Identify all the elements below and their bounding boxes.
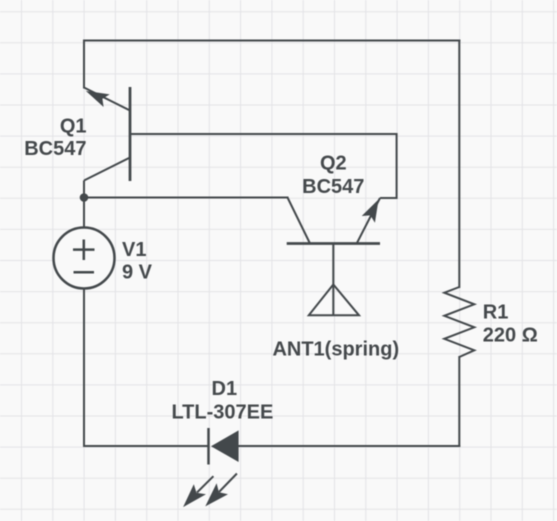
svg-text:LTL-307EE: LTL-307EE — [171, 401, 273, 423]
svg-text:ANT1(spring): ANT1(spring) — [272, 338, 399, 360]
svg-text:V1: V1 — [122, 239, 146, 261]
LED D1 triangle — [211, 430, 239, 462]
svg-text:Q2: Q2 — [320, 152, 347, 174]
wire right vertical lower — [458, 357, 460, 446]
wire left top vertical — [83, 41, 85, 88]
wire node to battery top — [83, 198, 85, 228]
resistor R1 — [444, 287, 474, 357]
wire right vertical upper — [458, 41, 460, 288]
node A (junction dot) — [80, 193, 89, 202]
LED light arrow 2 — [205, 474, 237, 507]
svg-text:220 Ω: 220 Ω — [483, 325, 538, 347]
svg-text:D1: D1 — [212, 378, 238, 400]
Q1 emitter arrow — [86, 91, 110, 107]
svg-text:BC547: BC547 — [302, 176, 364, 198]
svg-text:Q1: Q1 — [60, 115, 87, 137]
wire node to Q2 collector — [84, 197, 288, 199]
svg-text:R1: R1 — [483, 302, 509, 324]
svg-text:9 V: 9 V — [122, 262, 153, 284]
Q2 emitter arrow — [362, 199, 379, 222]
antenna ANT1 — [309, 244, 359, 316]
battery V1 — [54, 228, 115, 289]
wire top rail — [84, 40, 459, 42]
svg-text:BC547: BC547 — [24, 138, 86, 160]
transistor Q2 — [287, 242, 380, 245]
LED D1 cathode bar — [207, 428, 210, 465]
transistor Q1 — [129, 87, 132, 181]
LED light arrow 1 — [183, 476, 213, 507]
wire bottom left — [84, 289, 209, 446]
wire Q1 base to Q2 emitter — [130, 134, 397, 198]
wire bottom right — [239, 445, 460, 447]
